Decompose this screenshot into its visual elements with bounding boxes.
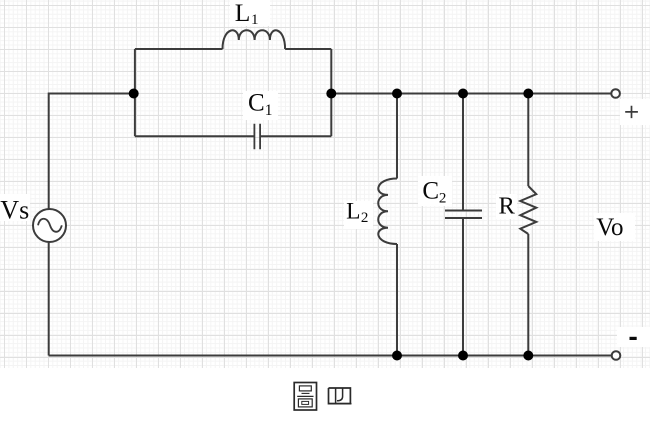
svg-text:1: 1: [251, 12, 259, 28]
wire L1 to tank top right: [285, 48, 331, 50]
svg-text:Vs: Vs: [0, 196, 29, 225]
white patch under label Vo: [594, 213, 635, 241]
wire right side of LC tank: [330, 49, 332, 136]
svg-text:C: C: [248, 90, 265, 117]
white patch under label L1: [230, 0, 270, 26]
wire R branch top: [527, 94, 529, 187]
caption character tu (figure): [294, 383, 316, 411]
wire R branch bottom: [527, 234, 529, 356]
terminal - (open circle): [612, 351, 621, 360]
white patch under label L2: [344, 201, 373, 229]
wire left side of LC tank: [134, 49, 136, 136]
terminal + (open circle): [611, 89, 620, 98]
svg-text:R: R: [499, 192, 516, 219]
label L2: [346, 199, 368, 227]
top rail from tank to output terminal: [331, 93, 611, 95]
inductor L1: [223, 30, 286, 49]
white patch under plus terminal label: [620, 99, 650, 125]
resistor R: [520, 186, 536, 234]
node R top: [523, 89, 533, 99]
label plus sign: [625, 106, 638, 118]
white patch under minus terminal label: [617, 327, 650, 347]
wire L2 branch bottom: [396, 244, 398, 356]
svg-text:2: 2: [361, 210, 369, 226]
node tank output: [326, 89, 336, 99]
label Vo: [596, 214, 623, 241]
label Vs: [0, 196, 29, 225]
white patch under label R: [496, 194, 517, 219]
label C2: [422, 177, 446, 206]
wire tank top left to L1: [135, 48, 223, 50]
wire from Vs top to input node: [49, 94, 134, 210]
svg-text:2: 2: [439, 191, 447, 207]
voltage source Vs: [33, 209, 66, 242]
wire C2 branch top: [462, 94, 464, 211]
svg-text:C: C: [422, 177, 439, 204]
wire Vs bottom to bottom rail: [48, 242, 50, 356]
label minus sign: [630, 337, 637, 340]
label C1: [248, 90, 273, 120]
wire C1 to tank bottom right: [260, 135, 331, 137]
white patch under label Vs: [0, 194, 30, 221]
capacitor C2: [445, 211, 482, 219]
inductor L2: [378, 179, 397, 245]
wire C2 branch bottom: [462, 218, 464, 356]
label L1: [235, 0, 259, 28]
caption character four: [328, 388, 352, 404]
node L2 bottom: [392, 351, 402, 361]
label R: [499, 192, 516, 219]
white patch under label C2: [418, 176, 452, 206]
node C2 bottom: [458, 351, 468, 361]
node input left: [129, 89, 139, 99]
node R bottom: [523, 351, 533, 361]
wire L2 branch top: [396, 94, 398, 179]
capacitor C1: [254, 124, 260, 150]
svg-text:Vo: Vo: [596, 214, 623, 241]
wire tank bottom left to C1: [135, 135, 255, 137]
svg-text:L: L: [235, 0, 251, 27]
white patch under label C1: [243, 91, 278, 120]
svg-text:1: 1: [265, 102, 273, 119]
bottom rail: [49, 355, 612, 357]
svg-text:L: L: [346, 199, 360, 225]
node C2 top: [458, 89, 468, 99]
node L2 top: [392, 89, 402, 99]
